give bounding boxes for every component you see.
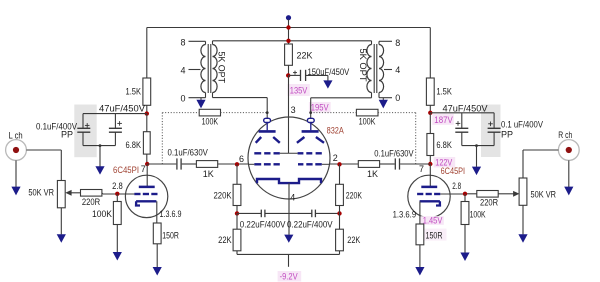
ground arrow at 832A cathode — [284, 235, 293, 243]
transformer T1 core — [207, 44, 209, 93]
control grids 832A — [254, 163, 261, 165]
wire right OPT primary to 832A plate — [311, 97, 372, 99]
resistor 220R right — [477, 191, 498, 198]
plate cap terminal left 832A — [264, 118, 271, 122]
svg-text:2.8: 2.8 — [452, 181, 461, 191]
wire lower plate-supply rail — [213, 40, 372, 42]
wire pin2 to 220K right — [339, 164, 341, 184]
svg-text:0.22uF/400V: 0.22uF/400V — [287, 219, 333, 229]
resistor 6.8K right — [427, 134, 434, 156]
svg-text:6C45PI: 6C45PI — [113, 165, 139, 175]
wire jack to pot right — [523, 149, 558, 151]
svg-text:5K OPT: 5K OPT — [217, 52, 227, 84]
ground arrow at right OPT 0 tap — [382, 98, 384, 101]
svg-text:22K: 22K — [297, 51, 313, 61]
node pin 2 — [337, 162, 341, 166]
label 1.45V — [421, 216, 444, 225]
svg-text:PP: PP — [61, 130, 73, 140]
wire 220K to node left — [236, 206, 238, 214]
svg-text:6.8K: 6.8K — [126, 140, 142, 150]
shaded box behind right PP capacitor — [481, 105, 501, 158]
plate lead left 6C45Pi — [146, 164, 148, 186]
svg-text:0.22uF/400V: 0.22uF/400V — [240, 219, 286, 229]
wire 100K to ground left — [116, 225, 118, 253]
wire jack ground right — [568, 160, 570, 187]
polarity + left 47uF cap — [117, 122, 122, 124]
capacitor 0.1uF/630V left — [176, 158, 178, 169]
junction dotted at left plate wire — [266, 111, 269, 114]
wire pin2 832A to 1K right — [330, 163, 358, 165]
connector L input jack — [6, 140, 27, 161]
potentiometer 50K VR right — [519, 178, 527, 205]
svg-text:220K: 220K — [214, 191, 232, 201]
label -9.2V — [278, 271, 302, 282]
pin 4 lead 832A — [288, 183, 290, 235]
label 122V — [434, 157, 456, 167]
wire pot to ground left — [60, 208, 62, 235]
cathode 832A — [257, 179, 321, 183]
junction dotted at right plate wire — [309, 111, 312, 114]
potentiometer 50K VR left — [57, 181, 65, 208]
svg-text:47uF/450V: 47uF/450V — [443, 103, 488, 113]
wire 1K to cap right — [380, 163, 395, 165]
ground arrow at left OPT 0 tap — [200, 98, 202, 101]
wire right plate drop — [310, 98, 312, 119]
node right bias — [337, 211, 341, 215]
svg-text:0: 0 — [180, 94, 185, 104]
node right grid — [463, 192, 467, 196]
svg-text:50K VR: 50K VR — [531, 189, 557, 199]
wire node to 6.8K right — [429, 113, 431, 134]
transformer T2 primary winding — [367, 45, 372, 93]
wire cap to 1K left — [182, 163, 197, 165]
svg-text:50K VR: 50K VR — [28, 188, 54, 198]
wire screen feed vertical pin3 — [288, 75, 290, 153]
svg-text:6C45PI: 6C45PI — [441, 166, 466, 176]
node B+ terminal dot — [286, 15, 291, 20]
wiper arrow left pot — [71, 192, 80, 194]
node left grid — [115, 192, 119, 196]
svg-text:220R: 220R — [82, 197, 101, 207]
resistor 1K left grid stopper — [196, 161, 217, 168]
dotted feedback link right — [378, 112, 416, 114]
transformer T1 primary winding — [213, 45, 218, 93]
label 195V — [309, 102, 331, 113]
node right B+ filter 187V — [428, 111, 432, 115]
ground arrow at 150uF — [323, 80, 332, 88]
capacitor 47uF/450V right — [461, 113, 463, 129]
label 187V — [432, 114, 454, 125]
wire 150R to ground left — [156, 244, 158, 267]
svg-text:L ch: L ch — [9, 130, 23, 140]
svg-text:1K: 1K — [367, 169, 378, 179]
wire left filter branch — [83, 113, 147, 115]
wire upper rail to right 1.5K — [429, 28, 431, 79]
svg-text:1K: 1K — [203, 169, 214, 179]
wire 6.8K to plate node left — [146, 154, 148, 164]
node left bias — [235, 211, 239, 215]
ground arrow right cathode — [415, 267, 424, 276]
wire jack to pot left — [26, 149, 61, 151]
wire 150R to ground right — [419, 245, 421, 267]
ground arrow left 100K — [113, 252, 122, 261]
wire upper supply rail — [147, 27, 431, 29]
plate cap terminal right 832A — [307, 118, 314, 122]
polarity + of 150uF — [293, 72, 297, 74]
svg-text:8: 8 — [395, 38, 400, 48]
resistor 22K right bias — [339, 213, 341, 229]
grid left 6C45Pi — [134, 193, 140, 195]
svg-text:2: 2 — [333, 153, 338, 163]
node left B+ filter — [145, 111, 149, 115]
svg-text:220R: 220R — [480, 198, 499, 208]
cathode left 6C45Pi — [135, 201, 157, 205]
wire pin6 to 220K left — [236, 164, 238, 184]
svg-text:150R: 150R — [426, 231, 443, 241]
wire between bias caps — [265, 212, 312, 214]
capacitor 150uF/450V — [300, 70, 302, 81]
wire 1.5K to node right — [429, 105, 431, 113]
wire right filter branch — [430, 112, 494, 114]
svg-text:0.1uF/630V: 0.1uF/630V — [374, 149, 413, 159]
beam plates right 832A — [297, 137, 305, 143]
dotted feedback link left — [162, 112, 199, 114]
wire 4-terminal left OPT — [189, 69, 201, 71]
wire bias bottom rail — [236, 251, 238, 255]
svg-text:100K: 100K — [470, 209, 486, 219]
junction upper rail — [286, 25, 290, 29]
resistor 220K right — [336, 184, 344, 205]
transformer T2 core — [373, 44, 375, 93]
svg-text:22K: 22K — [347, 235, 360, 245]
svg-text:1.5K: 1.5K — [126, 87, 142, 97]
svg-text:195V: 195V — [311, 103, 329, 113]
capacitor 0.1uF/400V PP left — [82, 114, 84, 129]
plate lead right 6C45Pi — [429, 164, 431, 186]
svg-text:6.8K: 6.8K — [436, 140, 452, 150]
label 135V — [288, 84, 310, 96]
beam plates left 832A — [256, 137, 262, 143]
wire 1.5K to node — [146, 105, 148, 113]
wire to -9.2V — [288, 254, 290, 266]
wire grid to 220R right — [440, 193, 465, 195]
transformer T2 secondary winding — [379, 45, 384, 93]
wire 100K to ground right — [464, 225, 466, 253]
capacitor 0.22uF/400V left — [260, 210, 262, 218]
polarity + right PP cap — [488, 123, 493, 125]
ground arrow left filter caps — [95, 166, 104, 174]
wire node to 6.8K left — [146, 114, 148, 132]
wire left plate node to cap — [147, 163, 176, 165]
grid right 6C45Pi — [417, 193, 423, 195]
tube 6C45Pi right envelope — [408, 175, 450, 217]
ground arrow left jack — [11, 187, 20, 196]
svg-text:R ch: R ch — [558, 130, 572, 140]
svg-text:3: 3 — [291, 105, 296, 115]
wire node to cap left — [237, 212, 261, 214]
ground arrow left pot — [57, 234, 66, 243]
transformer T1 secondary winding — [201, 45, 206, 93]
resistor 22K screen dropper — [285, 44, 293, 65]
wire 150uF to ground — [306, 74, 328, 76]
wire 22K to screen node — [288, 65, 290, 75]
resistor 100K left grid leak — [116, 194, 118, 202]
anode right 6C45Pi — [421, 186, 437, 189]
svg-text:22K: 22K — [218, 235, 232, 245]
anode left 6C45Pi — [139, 186, 155, 189]
potentiometer 100K right feedback — [356, 109, 378, 116]
wire jack ground left — [15, 160, 17, 187]
svg-text:-9.2V: -9.2V — [280, 272, 298, 282]
capacitor 0.1uF/630V right — [394, 158, 396, 169]
node 135V junction — [286, 73, 290, 77]
anode right 832A — [310, 123, 312, 131]
svg-text:0: 0 — [395, 93, 400, 103]
connector R input jack — [558, 140, 579, 161]
resistor 1.5K left — [143, 78, 151, 105]
wire 8-terminal right OPT — [379, 40, 392, 42]
svg-text:100K: 100K — [359, 116, 376, 126]
wire left caps to ground — [83, 145, 115, 147]
wire 8-terminal left OPT — [189, 40, 206, 42]
wiper arrow right pot — [504, 193, 514, 195]
svg-text:4: 4 — [290, 193, 295, 203]
wire B+ vertical drop — [288, 20, 290, 45]
cathode lead right 6C45Pi — [419, 201, 421, 224]
ground arrow left cathode — [153, 267, 162, 276]
tube 6C45Pi left envelope — [125, 175, 167, 217]
svg-text:1.3.6.9: 1.3.6.9 — [160, 209, 182, 219]
svg-text:1.5K: 1.5K — [436, 87, 452, 97]
wire left OPT primary to 832A plate — [213, 97, 268, 99]
wire 4-terminal right OPT — [384, 69, 392, 71]
svg-text:6: 6 — [239, 154, 244, 164]
svg-text:2.8: 2.8 — [112, 181, 123, 191]
svg-text:4: 4 — [180, 65, 185, 75]
resistor 1.5K right — [426, 78, 434, 105]
svg-text:1.3.6.9: 1.3.6.9 — [393, 209, 417, 219]
polarity + right 47uF cap — [456, 122, 461, 124]
ground arrow right jack — [564, 187, 573, 196]
ground arrow right filter caps — [472, 167, 481, 176]
svg-text:8: 8 — [180, 37, 185, 47]
resistor 22K left bias — [236, 213, 238, 229]
node pin 6 — [235, 162, 239, 166]
ground arrow right pot — [518, 234, 527, 243]
wire 220K to node right — [339, 206, 341, 214]
wire 1K to 832A pin6 — [218, 163, 249, 165]
wire 0-terminal left OPT — [189, 97, 206, 99]
anode left 832A — [266, 123, 268, 131]
resistor 220K left — [233, 184, 241, 205]
svg-text:832A: 832A — [327, 125, 344, 135]
wire cap to node right — [315, 212, 339, 214]
svg-text:100K: 100K — [92, 209, 112, 219]
wire node to 150uF cap — [289, 74, 301, 76]
shaded box behind left PP capacitor — [74, 105, 96, 158]
svg-text:135V: 135V — [290, 86, 308, 96]
svg-text:150R: 150R — [162, 230, 179, 240]
svg-text:0.1 uF/400V: 0.1 uF/400V — [501, 119, 543, 129]
capacitor 0.1uF/400V PP right — [493, 113, 495, 129]
resistor 220R left — [81, 190, 102, 197]
svg-text:5K OPT: 5K OPT — [358, 49, 368, 82]
resistor 6.8K left — [143, 132, 150, 154]
node right driver plate 122V — [428, 162, 432, 166]
svg-text:7: 7 — [141, 164, 146, 174]
svg-text:187V: 187V — [434, 115, 453, 125]
dotted link right 832A plate to pot — [311, 112, 357, 114]
node left driver plate — [145, 162, 149, 166]
wire 220R to grid left — [101, 193, 104, 194]
dotted link pot to left 832A plate — [221, 112, 268, 114]
svg-text:7: 7 — [419, 164, 424, 174]
resistor 1K right grid stopper — [358, 161, 379, 168]
svg-text:0.1uF/630V: 0.1uF/630V — [168, 148, 208, 158]
svg-text:100K: 100K — [202, 116, 219, 126]
wire cap to right plate node — [400, 163, 430, 165]
wire pot to ground right — [522, 205, 524, 234]
svg-text:PP: PP — [501, 129, 513, 139]
ground arrow right 100K — [460, 253, 469, 262]
resistor 150R left — [153, 223, 161, 244]
svg-text:1.45V: 1.45V — [423, 215, 443, 225]
resistor 150R right — [416, 224, 424, 245]
tube 832A envelope — [248, 117, 330, 199]
cathode right 6C45Pi — [420, 201, 442, 205]
label faint highlight right 150R — [424, 229, 447, 241]
screen grid 832A — [254, 152, 261, 154]
wire 0-terminal right OPT — [379, 97, 392, 99]
resistor 100K right grid leak — [464, 194, 466, 202]
polarity + left PP cap — [85, 124, 90, 126]
potentiometer 100K left feedback — [199, 109, 220, 116]
cathode lead left 6C45Pi — [156, 201, 158, 223]
svg-text:47uF/450V: 47uF/450V — [99, 103, 145, 113]
capacitor 0.22uF/400V right — [311, 210, 313, 218]
wire 6.8K to plate node right — [429, 156, 431, 165]
capacitor 47uF/450V left — [114, 114, 116, 129]
wire upper rail to left 1.5K — [146, 28, 148, 79]
svg-text:220K: 220K — [346, 191, 362, 201]
svg-text:4: 4 — [395, 65, 400, 75]
junction lower rail — [286, 39, 290, 43]
wire right caps to ground — [462, 145, 494, 147]
